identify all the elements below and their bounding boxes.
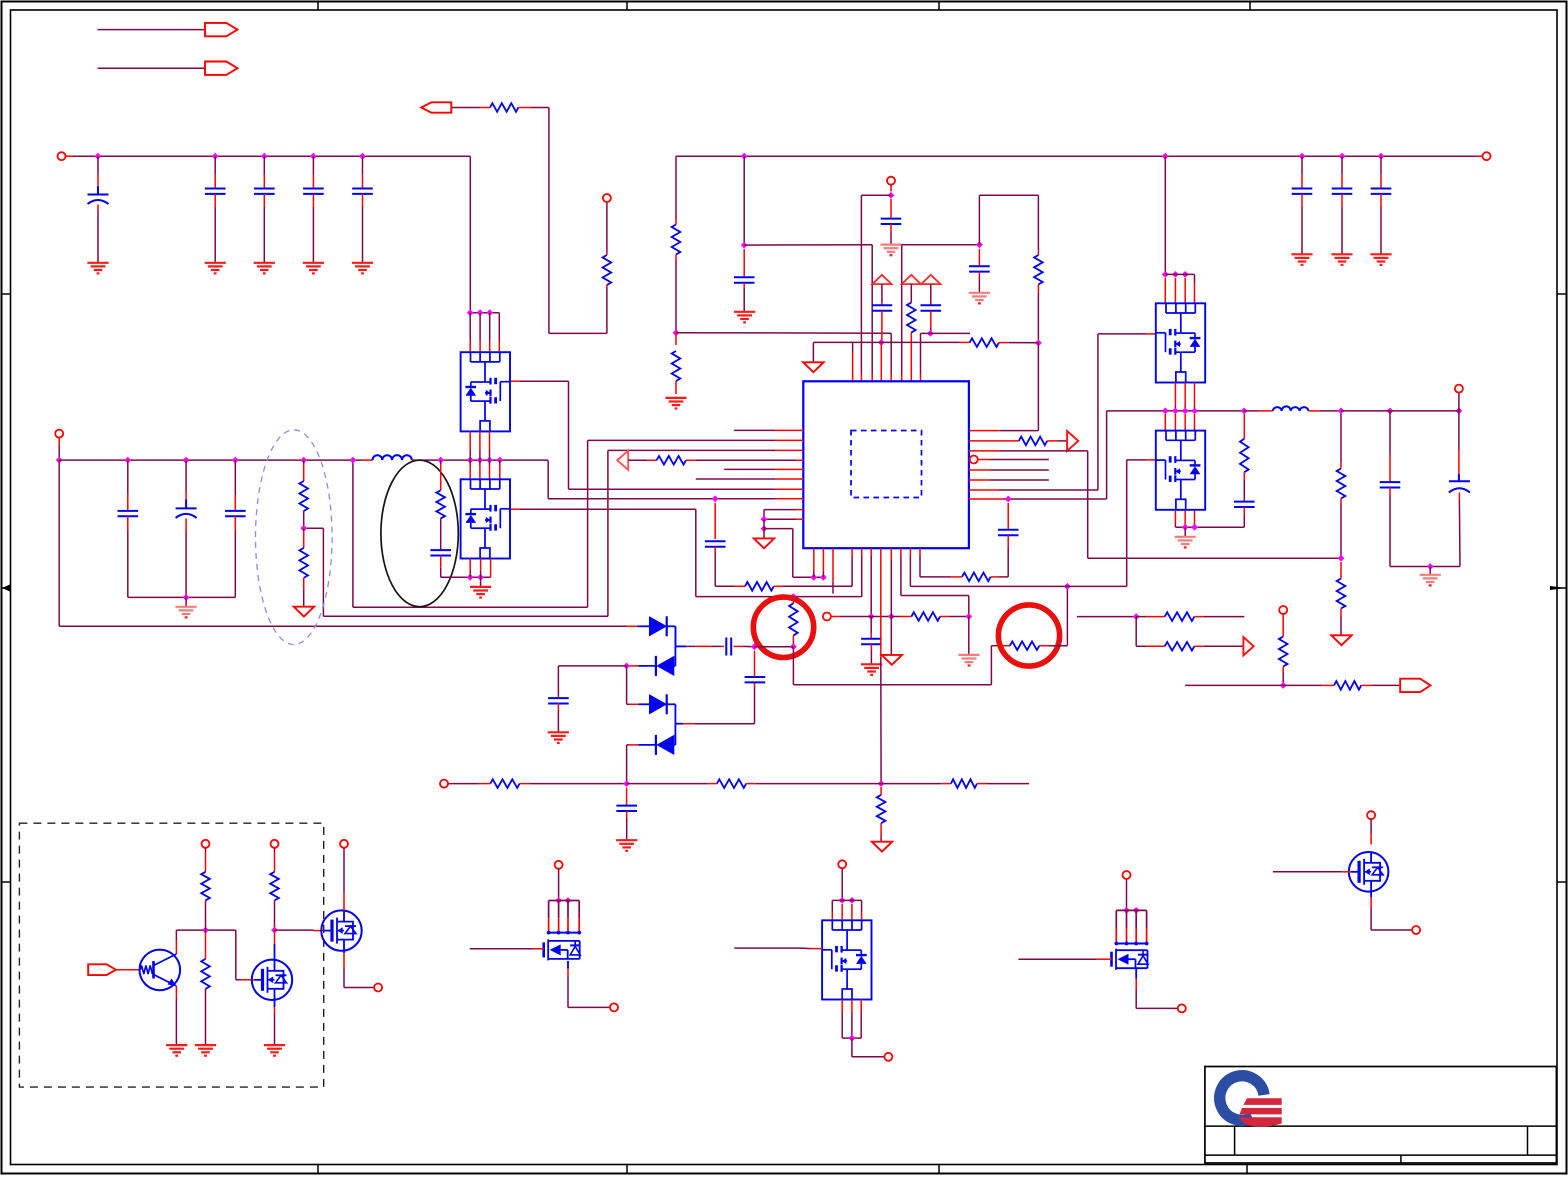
wire <box>627 783 717 785</box>
annotation circle A <box>753 597 813 657</box>
resistor R441 <box>1019 437 1047 446</box>
wire <box>1039 586 1067 645</box>
transistor Q7 (MOSFET) <box>1349 852 1389 892</box>
wire y342 <box>813 341 969 343</box>
terminal T1371 <box>1367 811 1375 819</box>
pin wire 519 <box>764 518 803 520</box>
junction <box>878 339 885 346</box>
capacitor C235 <box>225 460 246 597</box>
ground arrow GA1341 <box>1331 635 1351 645</box>
wire y245 <box>744 245 872 381</box>
wire D4 lead <box>627 745 676 784</box>
wire <box>344 951 374 988</box>
title block <box>1205 1067 1557 1164</box>
wire y333 right seg <box>921 333 971 381</box>
junction <box>888 192 895 199</box>
wire to C558 <box>558 666 626 698</box>
wire <box>774 548 852 586</box>
wire <box>98 29 205 31</box>
mosfet module QB (right bottom) <box>1156 431 1205 510</box>
annotation circle B <box>998 605 1059 666</box>
resistor R490 <box>490 779 519 788</box>
wire <box>674 665 676 667</box>
wire source <box>568 961 610 1008</box>
wire D1 anode (from rail x59) <box>59 625 649 627</box>
wire <box>275 929 324 932</box>
capacitor C626 <box>616 788 637 841</box>
junction <box>183 594 190 601</box>
capacitor C744 <box>734 249 755 312</box>
terminal T342 <box>340 840 348 848</box>
junction <box>741 153 1385 160</box>
pin wire 891 gnd <box>890 548 892 655</box>
wire hook <box>861 195 891 381</box>
header Q4 drain <box>547 901 581 935</box>
junction <box>1280 682 1287 689</box>
wire <box>890 185 892 192</box>
port P4 (output flag) <box>1400 679 1430 692</box>
pin stub 823 <box>822 548 824 577</box>
capacitor C754 (series) <box>745 651 766 687</box>
wire <box>1429 567 1431 575</box>
junction <box>623 780 630 787</box>
wire <box>343 848 345 910</box>
resistor R911 <box>907 284 916 381</box>
junction <box>56 457 63 464</box>
wire to pin431 <box>969 343 1039 431</box>
port triangle in460 <box>617 451 628 470</box>
wire <box>852 1038 884 1057</box>
junction <box>124 457 356 464</box>
terminal T1283 <box>1279 606 1287 614</box>
junction <box>1162 408 1198 415</box>
wire <box>841 869 843 901</box>
resistor R303b <box>299 528 308 607</box>
wire 528 link <box>764 529 823 578</box>
wire cap bus <box>128 596 236 598</box>
wire <box>185 597 187 606</box>
resistor R205b <box>201 930 210 1045</box>
wire y685r <box>1185 684 1334 686</box>
ground <box>616 840 637 851</box>
pin wire 430 <box>734 429 803 431</box>
ground <box>1420 575 1441 586</box>
wire D2 lead <box>630 665 656 667</box>
pin stub 833 <box>832 548 834 593</box>
terminal T888 <box>884 1053 892 1061</box>
capacitor C127 <box>118 460 139 597</box>
wire <box>1175 526 1244 528</box>
ground <box>958 655 979 666</box>
pin stubs Q6 bottom <box>842 999 861 1038</box>
capacitor C at 362 <box>352 156 373 263</box>
pin wire 451 net <box>969 451 1341 558</box>
wire <box>1165 273 1194 275</box>
wire <box>480 577 482 587</box>
ground <box>665 398 686 409</box>
junction <box>1182 524 1198 531</box>
junction <box>1123 907 1139 914</box>
ground <box>264 1045 285 1056</box>
wire D1 cathode to cap <box>675 626 721 646</box>
port P2 (second output flag) <box>205 62 238 75</box>
ground <box>87 263 108 274</box>
pin wire 871 <box>870 548 872 616</box>
logo (Quanta) <box>1220 1076 1282 1127</box>
wire <box>842 1037 861 1039</box>
resistor R676a chain <box>672 156 681 333</box>
terminal T444 <box>440 780 448 788</box>
ground <box>254 263 275 274</box>
terminal T614 <box>610 1003 618 1011</box>
pin stubs QD top <box>470 460 500 479</box>
pin wire 470 <box>969 469 1049 471</box>
terminal T558b <box>555 861 563 869</box>
junction <box>965 613 972 620</box>
resistor R911b <box>891 612 969 621</box>
capacitor C186 (polarized) <box>176 460 197 597</box>
pin stub <box>880 342 882 381</box>
wire <box>98 67 205 69</box>
resistor R717 <box>717 779 746 788</box>
pin wire 499L VCC <box>548 460 803 498</box>
junction <box>1005 496 1012 503</box>
capacitor C1390 <box>1380 411 1401 567</box>
wire y685 <box>793 646 1009 685</box>
capacitor C at 313 <box>303 156 324 263</box>
wire y586 to R <box>715 585 745 587</box>
junction <box>927 330 934 337</box>
ground <box>969 293 990 304</box>
wire gate <box>470 948 544 950</box>
junction <box>467 574 484 581</box>
wire <box>175 999 177 1045</box>
resistor R745 <box>745 582 774 591</box>
capacitor C871 <box>861 617 882 665</box>
wire <box>743 645 754 647</box>
junction <box>1338 555 1345 562</box>
junction <box>437 457 503 464</box>
wire <box>920 548 962 577</box>
transistor Q1 (BJT w/ base resistor) <box>140 940 181 999</box>
wire <box>518 108 607 334</box>
pin wire 880 net <box>880 548 882 783</box>
resistor R_in <box>490 103 518 112</box>
wire <box>686 459 803 461</box>
ground <box>1175 537 1196 548</box>
wire <box>743 156 745 245</box>
wire <box>274 1000 276 1045</box>
junction <box>1241 408 1248 415</box>
junction <box>1064 583 1071 590</box>
junction <box>761 516 768 532</box>
pin wire 499 net <box>969 411 1244 499</box>
header Q5 drain <box>1114 910 1148 945</box>
ground <box>861 664 882 675</box>
power flag VT3 <box>921 275 940 284</box>
wire <box>999 342 1039 344</box>
pin wire 910 gate3 net <box>910 460 1155 587</box>
resistor R1165b <box>1136 617 1243 651</box>
wire hook 979-1038 <box>979 195 1038 250</box>
resistor R_pullup 607 <box>603 202 612 333</box>
mosfet module QA (right top) <box>1156 303 1205 382</box>
terminal T205 <box>202 840 210 848</box>
junction <box>888 613 895 620</box>
pin wire 900 net <box>901 548 969 616</box>
junction <box>623 663 630 670</box>
junction <box>1035 340 1042 347</box>
junction <box>790 593 797 600</box>
capacitor C at 1381 <box>1371 156 1392 254</box>
wire rail VCC right <box>676 155 1482 157</box>
resistor R1165a <box>1136 612 1244 621</box>
resistor R951 <box>951 779 977 788</box>
resistor R274 <box>270 848 279 930</box>
ground <box>195 1045 216 1056</box>
power flag VT2 <box>902 275 921 284</box>
port P1 (top-left output flag) <box>205 23 238 36</box>
wire D2-D3 link <box>627 666 650 704</box>
terminal T607 <box>603 194 611 202</box>
resistor R1334 <box>1334 681 1361 690</box>
resistor R1009 (circled) <box>1010 641 1040 650</box>
resistor R793 (circled) <box>789 600 798 647</box>
wire <box>754 646 793 648</box>
pin stubs QC top <box>470 313 499 353</box>
ground <box>470 587 491 598</box>
junction <box>839 897 855 904</box>
ground <box>734 312 755 323</box>
capacitor C at 215 <box>205 156 226 263</box>
ground <box>352 263 373 274</box>
wire <box>520 783 627 785</box>
junction <box>878 780 885 787</box>
resistor R969 <box>970 338 999 347</box>
wire rail VIN left <box>66 155 471 157</box>
diode D2 <box>656 656 674 676</box>
wire rail2 drop <box>58 460 60 626</box>
terminal T891 <box>887 177 895 185</box>
wire <box>176 930 235 940</box>
ground arrow GA813 <box>803 362 823 372</box>
pin stubs QB top <box>1165 414 1194 431</box>
pin stub 813 <box>813 548 815 577</box>
junction <box>712 495 719 502</box>
transistor Q5 (flat MOSFET) <box>1112 949 1149 970</box>
capacitor C1459 (polarized) <box>1449 411 1470 567</box>
resistor R881 <box>877 787 886 842</box>
capacitor C930 <box>921 284 942 333</box>
mosfet module QC (left top) <box>461 352 510 431</box>
ground arrow GA891 <box>882 655 902 665</box>
wire gate <box>1273 871 1351 873</box>
mosfet module QD (left bottom) <box>461 479 510 558</box>
capacitor C882 <box>872 284 893 342</box>
capacitor C891 <box>881 199 902 244</box>
wire source <box>1136 969 1177 1008</box>
junction <box>271 927 278 934</box>
resistor R1283 <box>1279 614 1288 685</box>
pin wire <box>969 440 1019 442</box>
resistor R656 <box>657 456 687 465</box>
capacitor C558 <box>548 698 569 732</box>
pin wire 479 <box>696 478 804 480</box>
wire <box>1341 393 1459 411</box>
wire <box>1361 684 1400 686</box>
capacitor C at 1302 <box>1292 156 1313 254</box>
resistor R977 <box>962 573 991 582</box>
wire <box>1184 527 1186 537</box>
terminal T842 <box>838 860 846 868</box>
port P5 (input flag) <box>88 964 116 975</box>
resistor R676b <box>672 333 681 394</box>
wire <box>470 312 499 314</box>
wire <box>968 617 970 655</box>
wire <box>274 930 276 960</box>
resistor R1038 <box>1034 250 1043 343</box>
power flag VT1 <box>872 275 891 284</box>
wire <box>1244 410 1273 412</box>
capacitor C at 1342 <box>1332 156 1353 254</box>
junction <box>555 897 571 904</box>
terminal T378 <box>374 984 382 992</box>
port triangle out441 <box>1067 431 1078 451</box>
capacitor C715 <box>705 503 726 587</box>
junction <box>202 927 209 934</box>
wire <box>1126 879 1128 910</box>
terminal T1416 <box>1412 926 1420 934</box>
pin stubs QB bottom <box>1175 511 1194 528</box>
ground arrow GA303 <box>294 607 314 617</box>
wire <box>977 783 1029 785</box>
pin stubs QA bottom <box>1175 383 1194 411</box>
wire <box>1309 410 1342 412</box>
wire <box>116 969 140 971</box>
capacitor C1008 <box>998 503 1019 577</box>
wire <box>871 616 891 618</box>
pin wire 480 <box>969 479 1049 481</box>
junction <box>300 525 307 532</box>
terminal T274 <box>271 840 279 848</box>
inductor L2 <box>1273 406 1309 411</box>
wire <box>746 783 881 785</box>
junction <box>673 329 680 336</box>
resistor R205a <box>201 848 210 930</box>
capacitor C1 (polarized) <box>88 156 109 263</box>
no-connect 459 <box>970 456 1049 464</box>
pin wire 489 gate1L <box>510 381 803 489</box>
resistor R1341a <box>1337 414 1346 558</box>
pin wire 440 net <box>353 440 803 607</box>
wire <box>58 438 60 460</box>
wire y577 right <box>991 576 1009 578</box>
ground arrow GA881 <box>872 842 892 852</box>
junction <box>976 241 983 248</box>
wire <box>628 459 656 461</box>
wire gate jog <box>236 930 255 980</box>
IC U1 thermal pad (dashed) <box>851 431 922 498</box>
wire <box>412 459 548 461</box>
junction <box>741 242 748 249</box>
wire gate <box>1018 958 1111 960</box>
wire <box>1390 566 1460 568</box>
ground <box>880 245 901 256</box>
wire <box>451 107 490 109</box>
diode D4 <box>656 735 674 755</box>
resistor R1341b <box>1337 562 1346 635</box>
wire rail2 <box>59 459 372 461</box>
pin stubs QA top <box>1165 274 1194 303</box>
ground <box>1291 254 1312 265</box>
capacitor C440 <box>430 550 490 577</box>
pin wire 509 <box>764 510 803 520</box>
pin wire 490 gate1R <box>969 334 1156 490</box>
ground <box>548 732 569 743</box>
junction <box>868 613 875 620</box>
annotation ellipse (dashed) <box>255 430 332 645</box>
junction <box>751 643 758 650</box>
terminal T59 <box>55 430 63 438</box>
wire rail drop x470 <box>469 156 471 313</box>
annotation ellipse (black) <box>381 460 458 607</box>
ground <box>176 607 197 618</box>
wire <box>558 869 560 901</box>
wire D3 cathode bend <box>675 687 754 724</box>
resistor R440 <box>436 460 445 549</box>
wire <box>448 783 490 785</box>
pin stub 852 <box>852 342 854 381</box>
wire source <box>1371 892 1412 930</box>
pin stubs QC bottom <box>470 431 489 460</box>
junction <box>1133 613 1140 620</box>
junction <box>1427 563 1434 570</box>
port triangle out646 <box>1243 637 1253 656</box>
port P3 (left-pointing input flag) <box>421 102 451 112</box>
wire gate <box>734 947 822 950</box>
ground <box>205 263 226 274</box>
capacitor C728 (series) <box>721 638 743 656</box>
wire y245 right <box>902 245 980 381</box>
diode D1 <box>650 616 667 636</box>
wire <box>763 519 765 538</box>
junction <box>810 574 826 581</box>
wire <box>812 342 814 361</box>
junction <box>1162 271 1189 278</box>
capacitor C979 <box>969 249 990 293</box>
terminal T1459 <box>1455 385 1463 393</box>
mosfet module Q6 (bottom center) <box>822 920 871 999</box>
capacitor C at 264 <box>254 156 275 263</box>
inductor L1 <box>373 455 412 460</box>
transistor Q4 (flat MOSFET) <box>544 939 581 960</box>
terminal T_rail_R <box>1483 152 1491 160</box>
pin wire 450 net <box>304 450 804 616</box>
wire y616r <box>1077 616 1136 618</box>
transistor Q2 (MOSFET) <box>252 960 292 1000</box>
junction <box>849 1035 856 1042</box>
diode D3 <box>650 694 667 714</box>
IC U1 (main controller) <box>803 381 969 548</box>
transistor Q3 (MOSFET) <box>321 910 361 950</box>
RC leg 1244 <box>1234 414 1255 527</box>
terminal T_rail_L <box>58 152 66 160</box>
ground <box>1370 254 1391 265</box>
wire <box>667 626 676 666</box>
pin wire 861 gate2L net <box>510 509 862 596</box>
wire y333 <box>676 333 891 382</box>
wire <box>1164 156 1166 274</box>
